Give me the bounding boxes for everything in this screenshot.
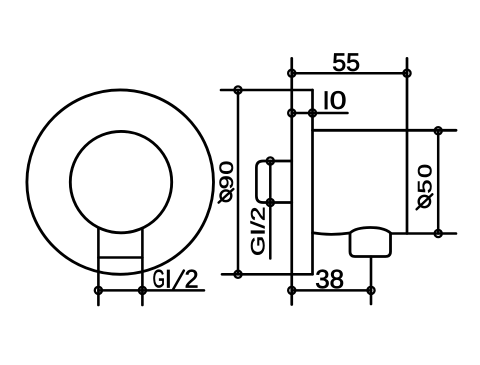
dimension 10 line	[292, 112, 348, 115]
dimension ø90 top extension line / plate top edge	[221, 89, 313, 92]
svg-text:50: 50	[414, 162, 436, 193]
dimension 10 left marker	[288, 109, 295, 116]
dimension 55 left marker	[288, 70, 295, 77]
body cylinder bottom edge right part / ø50 bottom extension	[391, 232, 457, 235]
plate left edge (wall face, side view)	[290, 58, 293, 304]
dimension 38 right marker	[367, 287, 374, 294]
body cylinder top edge / ø50 top extension	[313, 129, 457, 132]
dimension 55 right marker	[403, 70, 410, 77]
G1/2 inlet fitting (side view, rounded)	[256, 161, 291, 203]
outlet knob stem / 38 right extension	[370, 257, 373, 305]
dimension 55 line	[292, 72, 407, 75]
dimension 38 left marker	[288, 287, 295, 294]
svg-text:0: 0	[330, 86, 347, 114]
body cylinder right edge / 55 right extension	[406, 58, 409, 233]
dimension ø50 line	[437, 131, 440, 234]
front pipe right edge / extension line	[141, 229, 144, 305]
label G1/2 (front): slash	[173, 271, 184, 290]
dimension G1/2 (front) right marker	[139, 287, 146, 294]
label ø50 (rotated): diameter symbol	[419, 196, 430, 207]
front pipe cross line	[98, 256, 142, 259]
dimension G1/2 (side) line / text underline	[269, 161, 272, 259]
body inner circle (front view, ø50)	[70, 131, 171, 232]
label ø90 (rotated): diameter symbol	[221, 190, 232, 201]
dimension ø90 top marker	[234, 86, 241, 93]
dimension ø50 bottom marker	[435, 230, 442, 237]
dimension 10 right marker	[309, 109, 316, 116]
escutcheon plate outer circle (front view, ø90)	[27, 90, 214, 274]
outlet knob	[350, 228, 391, 257]
svg-text:I: I	[323, 87, 330, 115]
svg-text:2: 2	[185, 266, 199, 294]
svg-text:GI/2: GI/2	[247, 207, 269, 256]
svg-text:G: G	[153, 266, 165, 294]
dimension 38 line	[292, 289, 371, 292]
dimension ø90 line	[237, 90, 240, 274]
body cylinder bottom edge left part (wavy)	[313, 233, 350, 235]
dimension G1/2 (front) line	[98, 289, 204, 292]
plate right edge (side view)	[311, 90, 314, 274]
dimension ø50 top marker	[435, 127, 442, 134]
front pipe left edge / extension line	[97, 229, 100, 305]
dimension G1/2 (side) top marker	[267, 157, 274, 164]
dimension G1/2 (side) bottom marker	[267, 199, 274, 206]
svg-text:38: 38	[315, 264, 344, 294]
dimension G1/2 (front) left marker	[95, 287, 102, 294]
svg-text:I: I	[165, 266, 172, 294]
svg-text:90: 90	[215, 160, 237, 189]
svg-text:55: 55	[332, 49, 360, 77]
dimension ø90 bottom marker	[234, 271, 241, 278]
dimension ø90 bottom extension line / plate bottom edge	[222, 273, 313, 276]
